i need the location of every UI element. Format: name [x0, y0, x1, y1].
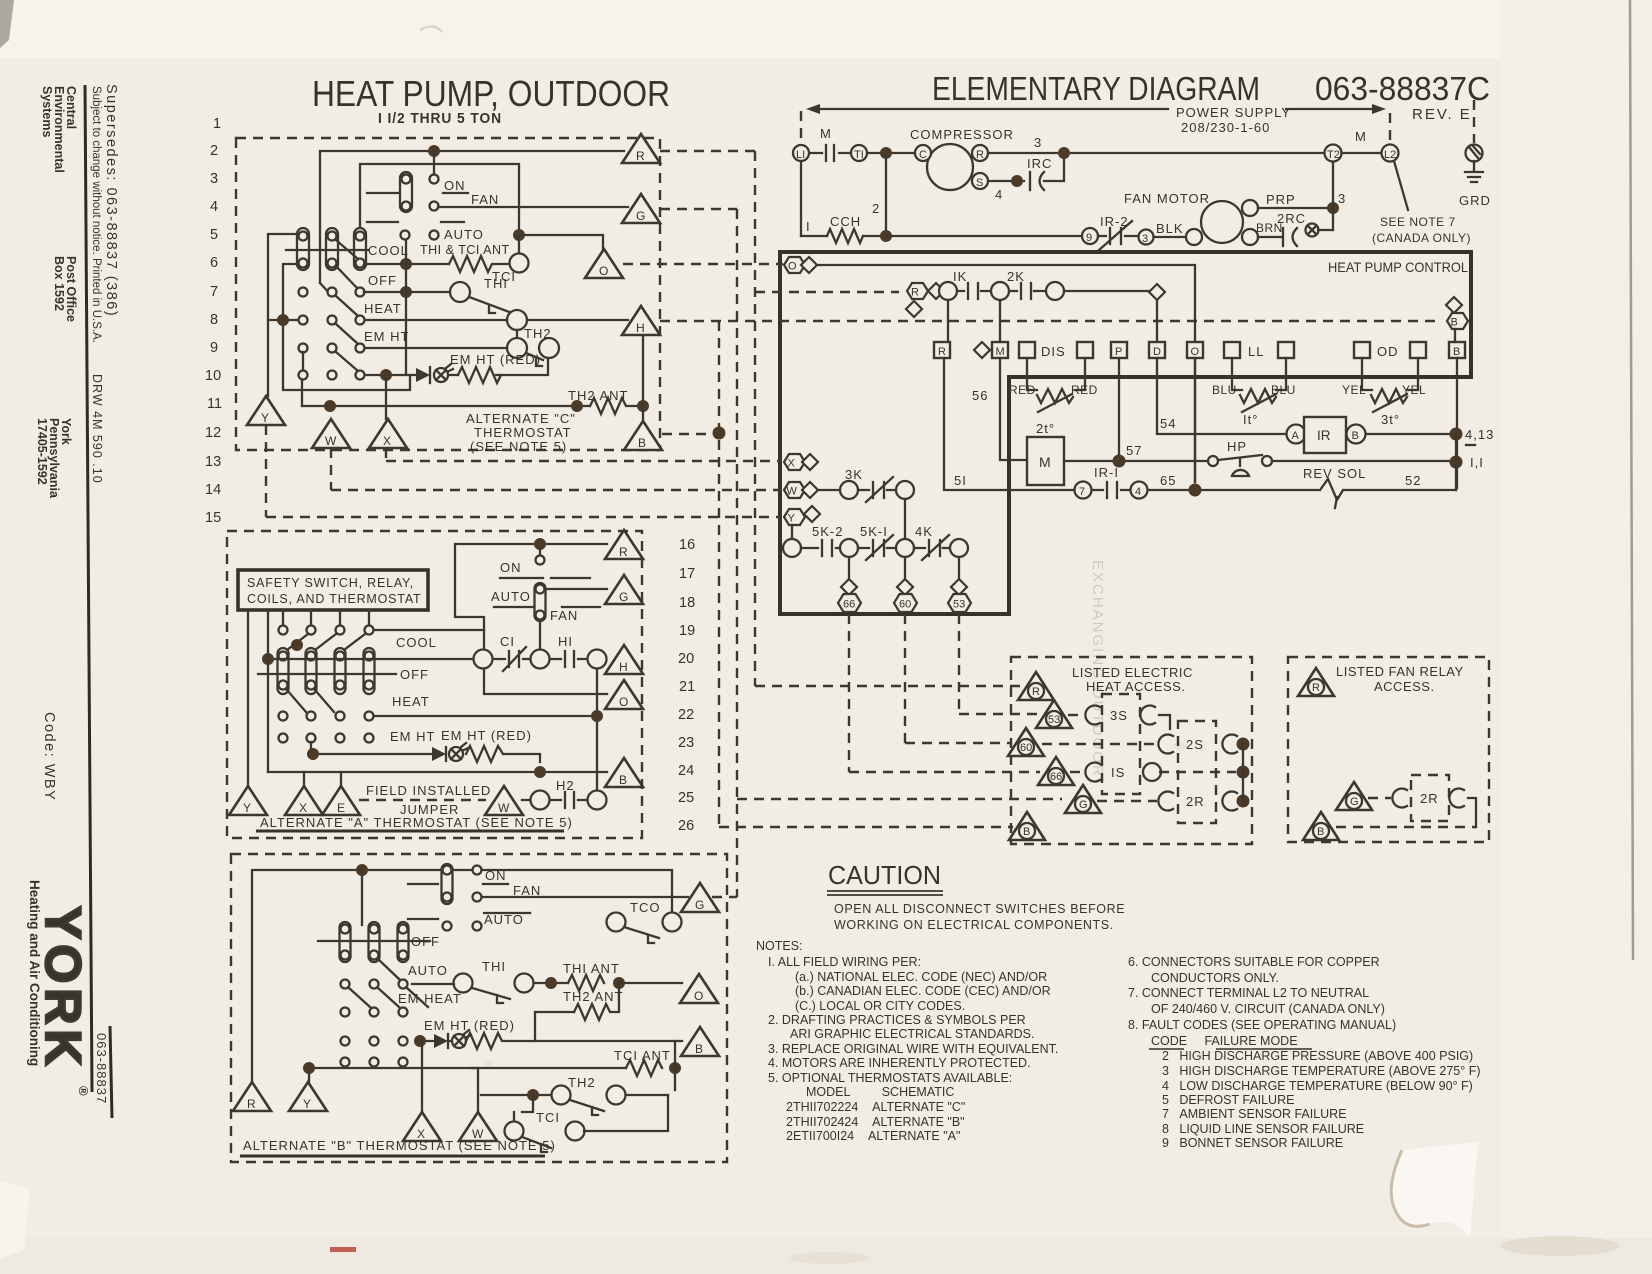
terminal B triangle heat access [1009, 812, 1045, 840]
svg-text:57: 57 [1126, 443, 1142, 458]
wire O coil down [1194, 358, 1196, 482]
svg-text:12: 12 [205, 425, 221, 441]
contact ON [430, 175, 439, 184]
svg-text:BLK: BLK [1156, 221, 1184, 236]
bulb TH2 lower + arm [507, 338, 527, 358]
hex 60 [894, 594, 917, 612]
lamp em ht (red) [434, 368, 448, 382]
wire H riser mid [596, 668, 598, 791]
svg-text:208/230-1-60: 208/230-1-60 [1181, 120, 1270, 135]
net B dashed run to hexagon B [660, 321, 1441, 827]
svg-text:Subject to change without noti: Subject to change without notice. Printe… [90, 86, 102, 343]
selector diag top [336, 240, 358, 259]
svg-text:R: R [911, 287, 919, 299]
wire L1 down [800, 161, 802, 236]
grid circles row3 [279, 712, 288, 721]
svg-text:P: P [1115, 346, 1122, 358]
svg-text:EM HT (RED): EM HT (RED) [424, 1018, 515, 1033]
svg-text:14: 14 [205, 482, 221, 498]
selector rail 2 [268, 264, 410, 390]
svg-text:R: R [619, 545, 628, 559]
svg-text:C: C [919, 149, 927, 161]
svg-text:2S: 2S [1186, 737, 1204, 752]
OFF line [258, 673, 396, 675]
svg-text:NOTES:: NOTES: [756, 939, 803, 953]
bulb TCI [510, 254, 529, 273]
svg-text:FAN: FAN [513, 883, 541, 898]
compressor motor [927, 144, 973, 190]
sidebar rule between columns [85, 85, 92, 1092]
svg-text:B: B [619, 773, 627, 787]
contact IR-1 [1075, 482, 1092, 499]
svg-text:G: G [636, 209, 645, 223]
terminal 53 triangle [1036, 700, 1072, 728]
svg-text:HEAT: HEAT [392, 694, 430, 709]
alternate B dashed enclosure [231, 854, 727, 1162]
svg-text:24: 24 [678, 763, 694, 779]
wire em-ht row [364, 358, 548, 375]
terminal Y triangle [247, 396, 285, 425]
svg-text:I I/2 THRU 5 TON: I I/2 THRU 5 TON [378, 110, 502, 127]
leader L2 note [1394, 161, 1408, 210]
svg-text:LI: LI [796, 149, 805, 161]
terminal L2 [1382, 145, 1399, 162]
net G dashed run [660, 209, 1062, 897]
wire riser auto [405, 240, 407, 375]
svg-text:2. DRAFTING PRACTICES & SYMBOL: 2. DRAFTING PRACTICES & SYMBOLS PER [768, 1013, 1026, 1027]
svg-text:16: 16 [679, 537, 695, 553]
svg-text:R: R [1312, 682, 1320, 694]
hex 53 [948, 594, 971, 612]
svg-text:3: 3 [1142, 233, 1148, 245]
terminal R triangle altB [233, 1082, 271, 1111]
selector pills [297, 228, 309, 270]
wire M to HP [1064, 460, 1208, 462]
wire COOL [374, 629, 484, 631]
net R branch to relay R hexagon [755, 291, 899, 293]
terminal G triangle [622, 194, 660, 223]
svg-text:ALTERNATE "C": ALTERNATE "C" [466, 411, 576, 426]
wire 2K to D [1064, 291, 1157, 341]
svg-text:9 BONNET SENSOR FAILURE: 9 BONNET SENSOR FAILURE [1162, 1136, 1343, 1150]
svg-text:3 HIGH DISCHARGE TEMPERATURE: 3 HIGH DISCHARGE TEMPERATURE (ABOVE 275°… [1162, 1064, 1481, 1078]
junction + wire to O [513, 229, 525, 241]
svg-text:7. CONNECT TERMINAL L2 TO NEUT: 7. CONNECT TERMINAL L2 TO NEUTRAL [1128, 986, 1369, 1000]
terminal 3 fan [1139, 230, 1154, 245]
thermistor DIS (RED) [1027, 358, 1085, 390]
svg-text:Systems: Systems [40, 86, 54, 137]
svg-text:ON: ON [485, 868, 507, 883]
hexagon B with diamond [1446, 297, 1462, 313]
svg-text:OD: OD [1377, 344, 1399, 359]
sidebar rule right of 063-88837 [110, 1026, 112, 1118]
svg-text:O: O [1191, 346, 1200, 358]
wire bottom rail [886, 236, 1186, 237]
terminal X triangle altB [403, 1112, 441, 1141]
svg-text:4: 4 [1135, 486, 1141, 498]
svg-text:11: 11 [207, 396, 222, 412]
svg-text:2THII702424 ALTERNATE "B": 2THII702424 ALTERNATE "B" [786, 1115, 965, 1129]
bulb TH2 upper [507, 310, 527, 330]
svg-text:22: 22 [678, 707, 694, 723]
svg-text:M: M [996, 346, 1005, 358]
net Y dashed run [266, 425, 782, 517]
junction node 3 [1327, 202, 1339, 214]
svg-text:B: B [1451, 317, 1458, 329]
svg-text:LISTED ELECTRIC: LISTED ELECTRIC [1072, 665, 1193, 680]
wire R rail altA [455, 544, 607, 694]
wire X riser [385, 379, 387, 419]
svg-text:6. CONNECTORS SUITABLE FOR COP: 6. CONNECTORS SUITABLE FOR COPPER [1128, 955, 1380, 969]
OFF line altB [318, 940, 430, 942]
terminal H triangle [622, 306, 660, 335]
svg-text:3K: 3K [845, 467, 863, 482]
svg-text:23: 23 [678, 735, 694, 751]
svg-text:3. REPLACE ORIGINAL WIRE WITH: 3. REPLACE ORIGINAL WIRE WITH EQUIVALENT… [768, 1042, 1058, 1056]
risers altB [309, 1041, 533, 1121]
terminal B triangle altB [681, 1027, 719, 1056]
wire B row [268, 771, 607, 773]
svg-text:TCI: TCI [536, 1110, 560, 1125]
selector pills altB [340, 922, 351, 962]
svg-text:5. OPTIONAL THERMOSTATS AVAILA: 5. OPTIONAL THERMOSTATS AVAILABLE: [768, 1071, 1012, 1085]
svg-text:O: O [694, 989, 703, 1003]
contact 2K [991, 282, 1009, 300]
svg-text:W: W [498, 801, 510, 815]
svg-text:ON: ON [444, 178, 466, 193]
svg-text:2THII702224 ALTERNATE "C": 2THII702224 ALTERNATE "C" [786, 1100, 965, 1114]
terminal G triangle altA [605, 575, 643, 604]
svg-text:AUTO: AUTO [491, 589, 531, 604]
terminal G triangle fan relay [1336, 782, 1372, 810]
svg-text:POWER SUPPLY: POWER SUPPLY [1176, 105, 1291, 120]
svg-text:3t°: 3t° [1381, 412, 1400, 427]
svg-text:4: 4 [210, 199, 218, 215]
svg-text:O: O [619, 695, 628, 709]
terminal W triangle altA [485, 786, 523, 815]
node L2 dashed stub [1389, 113, 1391, 142]
svg-text:WORKING ON ELECTRICAL COMPONEN: WORKING ON ELECTRICAL COMPONENTS. [834, 918, 1114, 932]
svg-text:Code: WBY: Code: WBY [41, 712, 57, 801]
svg-text:4K: 4K [915, 524, 933, 539]
wire B coil down [1456, 358, 1458, 488]
svg-text:Supersedes: 063-88837 (386): Supersedes: 063-88837 (386) [103, 84, 119, 317]
wire node2 down [885, 153, 887, 236]
net B branch from altC B triangle [662, 433, 719, 435]
svg-text:S: S [976, 177, 983, 189]
svg-text:MODEL SCHEMATIC: MODEL SCHEMATIC [806, 1085, 954, 1099]
svg-text:X: X [299, 801, 307, 815]
fan switch pill altB [442, 864, 453, 904]
svg-text:65: 65 [1160, 473, 1176, 488]
svg-text:IR-I: IR-I [1094, 465, 1119, 480]
terminal R triangle [622, 134, 660, 163]
svg-text:60: 60 [899, 599, 911, 611]
svg-text:66: 66 [1050, 771, 1062, 783]
svg-text:R: R [938, 346, 946, 358]
svg-text:ARI GRAPHIC ELECTRICAL STANDAR: ARI GRAPHIC ELECTRICAL STANDARDS. [790, 1027, 1035, 1041]
svg-text:3: 3 [1034, 135, 1042, 150]
svg-text:H2: H2 [556, 778, 575, 793]
svg-text:DIS: DIS [1041, 344, 1066, 359]
terminal W triangle altB [459, 1112, 497, 1141]
svg-text:26: 26 [678, 818, 694, 834]
terminal X triangle [369, 419, 407, 448]
svg-text:B: B [1317, 826, 1324, 838]
svg-text:(a.) NATIONAL ELEC. CODE (NEC): (a.) NATIONAL ELEC. CODE (NEC) AND/OR [795, 970, 1047, 984]
svg-text:4,13: 4,13 [1465, 427, 1494, 442]
svg-text:CONDUCTORS ONLY.: CONDUCTORS ONLY. [1151, 971, 1279, 985]
wire P coil down [1118, 358, 1120, 461]
coil 2S [1042, 743, 1157, 745]
svg-text:B: B [695, 1042, 703, 1056]
svg-text:THI: THI [484, 276, 508, 291]
terminal 9 [1082, 228, 1098, 244]
svg-text:I,I: I,I [1470, 455, 1484, 470]
lamp em ht altA [449, 747, 463, 761]
svg-text:063-88837: 063-88837 [94, 1033, 109, 1104]
svg-text:5I: 5I [954, 473, 967, 488]
svg-text:R: R [1032, 686, 1040, 698]
svg-text:W: W [787, 486, 798, 498]
svg-text:FAN MOTOR: FAN MOTOR [1124, 191, 1210, 206]
resistor em ht altA [466, 746, 503, 762]
svg-text:ALTERNATE "A" THERMOSTAT (SEE: ALTERNATE "A" THERMOSTAT (SEE NOTE 5) [260, 815, 573, 830]
svg-text:54: 54 [1160, 416, 1176, 431]
wire H riser [302, 330, 643, 424]
svg-text:PRP: PRP [1266, 192, 1296, 207]
terminal B triangle altA [605, 758, 643, 787]
svg-text:9: 9 [210, 340, 218, 356]
svg-text:CODE FAILURE MODE: CODE FAILURE MODE [1151, 1034, 1298, 1048]
svg-text:G: G [1079, 799, 1088, 811]
terminal R triangle heat access [1018, 672, 1054, 700]
svg-text:56: 56 [972, 388, 988, 403]
wire coil bus [1242, 744, 1244, 801]
svg-text:1: 1 [213, 116, 221, 132]
svg-text:2: 2 [872, 201, 880, 216]
svg-text:HEAT: HEAT [364, 301, 402, 316]
junction 4,13 [1450, 428, 1463, 441]
svg-text:G: G [695, 898, 704, 912]
svg-text:7: 7 [1079, 486, 1085, 498]
wire HEAT row [374, 715, 597, 717]
junction 57 [1113, 455, 1126, 468]
svg-text:(CANADA ONLY): (CANADA ONLY) [1372, 231, 1471, 245]
contact 5K-1 [858, 535, 896, 560]
svg-text:Heating and Air Conditioning: Heating and Air Conditioning [27, 880, 42, 1066]
svg-text:ON: ON [500, 560, 522, 575]
net X dashed run [386, 448, 782, 461]
relay coil squares row [934, 342, 950, 358]
svg-text:20: 20 [678, 651, 694, 667]
svg-text:YEL: YEL [1402, 383, 1426, 397]
net G branch to altB [712, 896, 737, 898]
wire EM HT row altB [420, 1040, 682, 1042]
wire to ON contact [433, 151, 435, 174]
diode em ht [416, 368, 430, 382]
label box safety switch [238, 570, 428, 610]
svg-text:M: M [1355, 129, 1367, 144]
svg-text:66: 66 [843, 599, 855, 611]
coil 1S [1070, 771, 1084, 773]
svg-text:H: H [636, 321, 645, 335]
svg-text:2 HIGH DISCHARGE PRESSURE (A: 2 HIGH DISCHARGE PRESSURE (ABOVE 400 PSI… [1162, 1049, 1473, 1063]
wire 2K coil riser [999, 300, 1001, 342]
svg-text:R: R [976, 149, 984, 161]
hex 66 [838, 594, 861, 612]
svg-text:I: I [806, 219, 811, 234]
svg-text:TH2: TH2 [568, 1075, 596, 1090]
svg-text:7 AMBIENT SENSOR FAILURE: 7 AMBIENT SENSOR FAILURE [1162, 1107, 1347, 1121]
svg-text:CCH: CCH [830, 214, 861, 229]
svg-text:THI & TCI ANT: THI & TCI ANT [420, 243, 510, 257]
svg-text:SEE NOTE 7: SEE NOTE 7 [1380, 215, 1456, 229]
svg-text:RED: RED [1071, 383, 1098, 397]
capacitor contact M [826, 145, 834, 161]
svg-text:17405-1592: 17405-1592 [35, 418, 49, 485]
svg-text:ALTERNATE "B" THERMOSTAT (SEE: ALTERNATE "B" THERMOSTAT (SEE NOTE 5) [243, 1138, 556, 1153]
selector grid left rail [268, 234, 299, 396]
svg-text:EM HT (RED): EM HT (RED) [441, 728, 532, 743]
svg-text:A: A [1292, 430, 1300, 442]
svg-text:FIELD INSTALLED: FIELD INSTALLED [366, 783, 491, 798]
svg-text:RED: RED [1009, 383, 1036, 397]
wire rail2 [360, 164, 519, 232]
svg-text:LISTED FAN RELAY: LISTED FAN RELAY [1336, 664, 1464, 679]
svg-text:CI: CI [500, 634, 515, 649]
wire bottom rail 51/65/52 [944, 358, 1456, 490]
svg-text:AUTO: AUTO [408, 963, 448, 978]
svg-text:DRW 4M 590 .10: DRW 4M 590 .10 [90, 374, 104, 484]
diode em ht altB [434, 1034, 448, 1048]
svg-text:R: R [636, 149, 645, 163]
wire TH2 to H [527, 319, 628, 321]
selector circles bottom row [299, 371, 308, 380]
alternate A dashed enclosure [227, 531, 642, 838]
svg-text:2ETII700I24 ALTERNATE "A": 2ETII700I24 ALTERNATE "A" [786, 1129, 960, 1143]
resistor em ht [458, 367, 501, 383]
svg-text:4: 4 [995, 187, 1003, 202]
svg-text:(b.) CANADIAN ELEC. CODE (CEC): (b.) CANADIAN ELEC. CODE (CEC) AND/OR [795, 984, 1051, 998]
wire M coil to contactor [1000, 358, 1026, 460]
svg-text:5: 5 [210, 227, 218, 243]
lamp 2RC [1306, 224, 1319, 237]
grid circles row4 [279, 734, 288, 743]
net R dashed run [660, 151, 1021, 686]
junction dot bottom rail [880, 230, 892, 242]
fan switch pill [400, 172, 412, 212]
svg-text:REV SOL: REV SOL [1303, 466, 1366, 481]
wire R rail [320, 151, 624, 295]
grid diagonals lower [287, 690, 334, 712]
contact 4K [914, 535, 950, 560]
junction on R rail [428, 145, 440, 157]
terminal B triangle [624, 421, 662, 450]
terminal Y triangle altB [289, 1082, 327, 1111]
svg-text:TCO: TCO [630, 900, 660, 915]
resistor em ht altB [466, 1033, 502, 1049]
svg-text:6: 6 [210, 255, 218, 271]
svg-text:Y: Y [788, 513, 796, 525]
wire FAN to G altB [482, 896, 688, 898]
svg-text:TH2 ANT: TH2 ANT [568, 388, 628, 403]
heat pump control box outline [780, 252, 1471, 614]
svg-text:IRC: IRC [1027, 156, 1052, 171]
net O dashed run [623, 263, 783, 265]
hexagon W [784, 482, 805, 498]
hexagon R [907, 283, 928, 299]
wire 3K riser [904, 499, 906, 539]
svg-text:ACCESS.: ACCESS. [1374, 679, 1435, 694]
svg-text:THI: THI [482, 959, 506, 974]
grid risers from label box [283, 610, 369, 626]
terminal G triangle heat access [1065, 785, 1101, 813]
svg-text:2: 2 [210, 143, 218, 159]
svg-text:2R: 2R [1186, 794, 1205, 809]
wire row9 [364, 347, 507, 349]
heater CCH [801, 235, 827, 237]
diamond right of R [928, 283, 944, 299]
svg-text:BLU: BLU [1271, 383, 1296, 397]
terminal H triangle altA [605, 645, 643, 674]
terminal B triangle fan relay [1303, 812, 1339, 840]
listed fan relay access dashed box [1288, 657, 1489, 842]
svg-text:ELEMENTARY DIAGRAM: ELEMENTARY DIAGRAM [932, 70, 1260, 107]
terminal T1 [851, 145, 867, 161]
hexagon O [784, 257, 805, 273]
wire TH2 bulbs link [516, 330, 518, 338]
wire S to IRC [988, 153, 1064, 181]
svg-text:IS: IS [1111, 765, 1125, 780]
terminal 66 triangle [1038, 757, 1074, 785]
svg-text:(SEE NOTE 5): (SEE NOTE 5) [470, 439, 567, 454]
svg-text:IK: IK [953, 269, 967, 284]
svg-text:AUTO: AUTO [444, 227, 484, 242]
net W dashed run [331, 448, 782, 490]
svg-text:Box 1592: Box 1592 [52, 256, 66, 311]
capacitor IRC [1029, 172, 1031, 190]
terminal L1 [793, 145, 809, 161]
svg-text:9: 9 [1086, 232, 1092, 244]
grid top circles [279, 626, 288, 635]
contactor M box [1027, 437, 1064, 485]
svg-text:HEAT PUMP CONTROL: HEAT PUMP CONTROL [1328, 259, 1468, 275]
diamond 53 [951, 579, 967, 595]
svg-text:R: R [247, 1097, 256, 1111]
diamond on D riser [1149, 284, 1165, 300]
net 60 dashed run [905, 614, 1010, 743]
selector circles row OFF [299, 288, 308, 297]
wire T2 down [1332, 161, 1334, 230]
svg-text:8: 8 [210, 312, 218, 328]
svg-text:EM HT: EM HT [364, 329, 409, 344]
terminal O triangle altA [605, 680, 643, 709]
svg-text:25: 25 [678, 790, 694, 806]
svg-text:15: 15 [205, 510, 221, 526]
junction node 2 top [880, 147, 892, 159]
svg-text:7: 7 [210, 284, 218, 300]
svg-text:G: G [619, 590, 628, 604]
svg-text:52: 52 [1405, 473, 1421, 488]
thermistor OD (YEL) [1362, 358, 1418, 390]
svg-text:OPEN ALL DISCONNECT SWITCHES B: OPEN ALL DISCONNECT SWITCHES BEFORE [834, 902, 1125, 916]
svg-text:21: 21 [679, 679, 695, 695]
svg-text:EM HT (RED): EM HT (RED) [450, 352, 541, 367]
svg-text:HEAT ACCESS.: HEAT ACCESS. [1086, 679, 1185, 694]
selector circles row HEAT [299, 316, 308, 325]
wire EM HT row [311, 742, 540, 762]
